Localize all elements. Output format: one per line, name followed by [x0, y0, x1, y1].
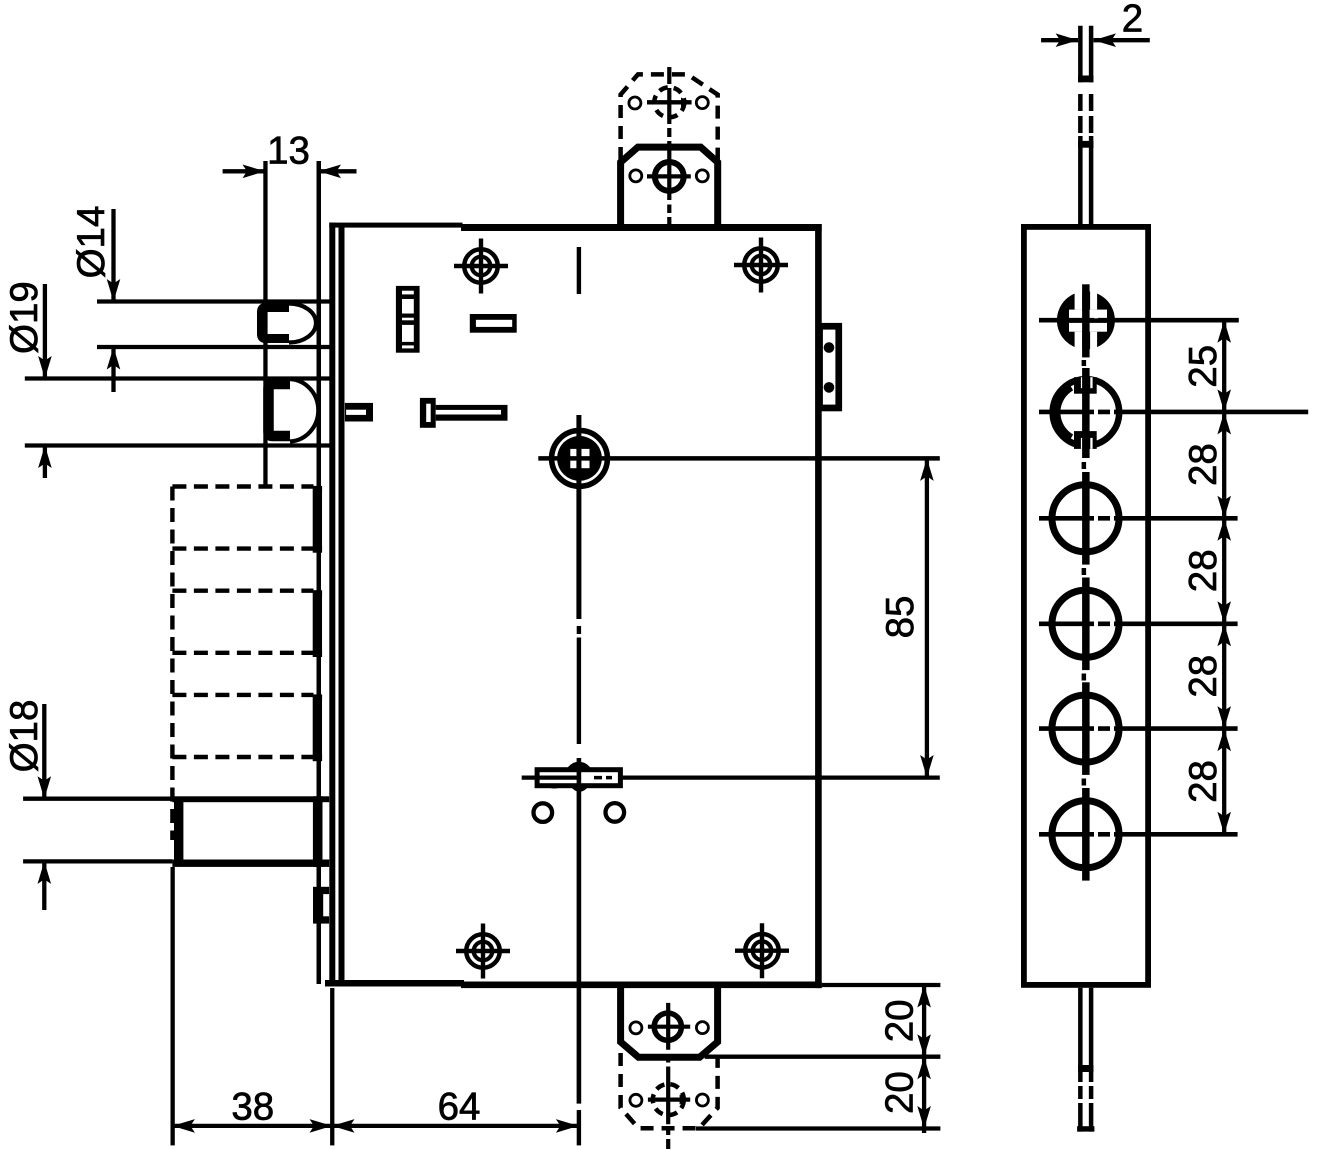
dimension 85	[925, 458, 929, 777]
dimension Ø14	[111, 209, 115, 392]
svg-text:Ø19: Ø19	[3, 281, 46, 354]
retracted deadbolt phantom outline (dashed) left edge	[170, 487, 174, 841]
key bit profile detail	[537, 770, 620, 786]
svg-text:Ø18: Ø18	[3, 700, 46, 773]
phantom deadbolt line 4	[172, 651, 313, 655]
faceplate bolt opening 3	[313, 694, 322, 761]
lock case top edge (right segment)	[461, 224, 822, 231]
svg-text:13: 13	[267, 130, 310, 173]
corner screw hole top-right	[744, 248, 778, 282]
deadbolt Ø18 faceplate opening	[313, 796, 323, 867]
dimension 28 (1)	[1217, 412, 1231, 435]
bottom phantom bracket side hole right	[696, 1094, 708, 1106]
top mounting bracket outline	[621, 147, 718, 229]
svg-text:2: 2	[1122, 0, 1143, 41]
top phantom bracket side hole right	[696, 97, 708, 109]
bottom mounting bracket outline	[621, 982, 718, 1057]
corner screw hole top-left	[464, 249, 498, 283]
bottom phantom bracket crosshair	[648, 1097, 690, 1101]
bottom bracket centerline	[666, 1003, 670, 1149]
deadbolt Ø18 extension line bottom	[23, 859, 172, 863]
svg-text:20: 20	[879, 999, 922, 1042]
svg-text:38: 38	[231, 1086, 274, 1129]
dimension Ø18	[42, 704, 46, 910]
dimension 28 (2)	[1217, 518, 1231, 541]
lock case bottom edge (right segment)	[461, 982, 822, 989]
lock case bottom edge (left segment)	[325, 980, 464, 987]
bolt hole 3	[1052, 485, 1119, 552]
latch bolt Ø14 top line	[97, 299, 332, 303]
extension line 38-dim left	[171, 867, 175, 1145]
faceplate bolt opening 1	[313, 486, 322, 553]
phantom deadbolt line 6	[172, 755, 313, 759]
svg-text:25: 25	[1182, 345, 1225, 388]
key guide hole left	[534, 803, 553, 822]
svg-text:28: 28	[1182, 760, 1225, 803]
dimension 2 (faceplate thickness)	[1041, 38, 1078, 42]
svg-text:28: 28	[1182, 655, 1225, 698]
actuating rod above faceplate	[1080, 26, 1091, 83]
latch bolt Ø14 body	[262, 308, 290, 339]
svg-text:28: 28	[1182, 443, 1225, 486]
svg-text:85: 85	[879, 596, 922, 639]
top phantom bracket side hole left	[629, 97, 641, 109]
phantom deadbolt line 2	[172, 546, 313, 550]
svg-text:28: 28	[1182, 549, 1225, 592]
bolt hole 2	[1053, 379, 1120, 446]
stop tab on case left edge	[345, 403, 373, 422]
top phantom bracket hole (dashed circle)	[654, 87, 684, 117]
dimension 38 and 64	[172, 1124, 578, 1128]
top phantom bracket crosshair	[647, 100, 692, 104]
lock case right edge	[815, 224, 822, 988]
corner screw hole bottom-right	[745, 934, 779, 968]
latch bolt Ø19 head arc	[290, 379, 318, 442]
svg-text:Ø14: Ø14	[70, 206, 113, 279]
actuating rod below faceplate	[1080, 988, 1091, 1082]
keyhole reference line / 85-dim reference bottom	[522, 775, 577, 779]
latch bolt Ø19 bottom line	[25, 443, 332, 447]
latch bolt Ø19 top line	[25, 376, 332, 380]
deadbolt Ø18 bottom edge	[172, 860, 329, 867]
bottom phantom bracket hole (dashed circle)	[653, 1084, 684, 1115]
cylinder core disc	[557, 436, 602, 481]
phantom deadbolt line 3	[172, 589, 313, 593]
latch bolt Ø14 head arc	[289, 304, 316, 343]
dimension 13	[223, 169, 265, 173]
faceplate front edge line	[317, 161, 322, 984]
phantom deadbolt line 5	[172, 693, 313, 697]
slotted plate detail	[470, 314, 517, 333]
latch follower tab lower	[313, 887, 329, 924]
svg-text:64: 64	[438, 1086, 481, 1129]
lock case left edge inner line	[339, 224, 345, 984]
faceplate bolt opening 2	[313, 590, 322, 657]
bolt hole 6	[1052, 801, 1119, 868]
top bracket centerline	[667, 67, 671, 228]
faceplate (side view) outline	[1024, 227, 1148, 985]
bolt hole 5	[1052, 695, 1119, 762]
vertical centerline of cylinder (dash-dot)	[577, 247, 581, 294]
bottom bracket center hole	[654, 1013, 681, 1040]
dimension 28 (4)	[1217, 729, 1231, 752]
dimension Ø19	[43, 284, 47, 478]
dimension 25	[1222, 320, 1226, 836]
centerline dashes between holes	[1082, 360, 1087, 786]
lock case left edge outer line	[329, 223, 335, 987]
bolt hole 1 (cross-section of bolt)	[1057, 291, 1115, 349]
phantom deadbolt line 1	[172, 484, 313, 488]
lock case top edge (left segment)	[329, 223, 462, 228]
bottom mounting bracket phantom outline (dashed)	[621, 1053, 718, 1128]
cylinder hole outer ring	[552, 431, 608, 487]
dimension 20 upper	[822, 983, 941, 987]
top bracket side hole left	[630, 170, 642, 182]
side latch housing on right edge	[818, 323, 842, 411]
rod break (dashed)	[1080, 94, 1091, 133]
extension line of dim 13 (left)	[263, 161, 267, 486]
deadbolt Ø18 left edge	[174, 797, 183, 867]
spring cassette block	[396, 286, 420, 353]
bottom phantom bracket side hole left	[630, 1094, 642, 1106]
latch bolt Ø19 body	[269, 384, 291, 436]
deadbolt Ø18 extension line top	[23, 797, 172, 801]
key guide hole right	[606, 803, 625, 822]
guide pin (screw) detail	[420, 398, 436, 428]
bolt hole 4	[1052, 590, 1119, 657]
deadbolt Ø18 top edge	[172, 796, 329, 802]
corner screw hole bottom-left	[466, 934, 500, 968]
cylinder crosshair horizontal / 85-dim reference top	[538, 456, 940, 461]
bottom bracket side hole right	[696, 1022, 708, 1034]
top mounting bracket phantom outline (dashed)	[621, 74, 718, 160]
top bracket side hole right	[696, 170, 708, 182]
extension line 38/64 middle	[330, 988, 334, 1145]
latch bolt Ø14 bottom line	[97, 345, 332, 349]
bottom bracket side hole left	[630, 1022, 642, 1034]
top bracket center hole	[655, 162, 684, 191]
svg-text:20: 20	[879, 1071, 922, 1114]
dimension 28 (3)	[1217, 624, 1231, 647]
